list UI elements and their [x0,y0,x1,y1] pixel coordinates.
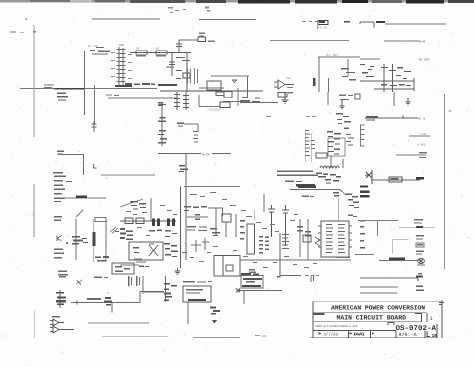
wire AC neutral bus [365,117,418,119]
wire H30 battery bus [358,221,435,228]
arrow marks right [110,227,119,233]
label 1N4007 [419,152,427,158]
edge connector marks far left battery area [360,220,365,249]
stray dash [449,111,452,112]
dashed net marker [266,115,316,118]
wire V40 [347,59,349,76]
svg-text:R1 10K: R1 10K [88,45,98,48]
wire vertical V34 [318,58,320,93]
wire elbow V43 [377,221,379,237]
op-amp U2 [274,77,294,89]
wire H30c stub [355,253,374,255]
svg-text:MAIN CIRCUIT BOARD: MAIN CIRCUIT BOARD [337,315,407,322]
junction drop [373,22,375,28]
diode D1 row [125,83,155,85]
wire V53 [34,311,36,338]
wire V18 [215,208,217,235]
relay K2 box tall [247,224,255,254]
relay K1b box [224,92,232,98]
wire H39 drive bus [71,302,140,304]
cluster right of diagonal [346,194,359,209]
wire jog [144,291,164,293]
node tick on H39 [76,301,78,305]
fuse F1 [318,21,328,30]
bracket node [94,164,97,168]
heatsink parts cluster [164,243,178,257]
svg-text:A+5V: A+5V [202,152,210,156]
wire H22 [101,174,155,176]
label texts row3 top left [59,276,108,278]
svg-text:1: 1 [430,316,433,322]
rotated text column pair [128,276,140,286]
wire stub [317,22,319,29]
ladder side labels [111,45,132,80]
wire V38 [338,198,340,221]
label row above transformer box [183,281,212,283]
wire drop from speaker bus [243,291,245,304]
wire H7 [318,56,360,58]
wire faint H42a [102,336,168,338]
wire V26 foot elbow [280,275,319,276]
resistor R22 with ground [210,228,220,236]
wire inverter output bus [371,179,420,181]
label small pair [249,269,255,273]
transistor Q11 [104,297,112,305]
wire right rail [444,94,446,269]
pin column pair cluster [259,236,269,253]
label stack fan [54,185,65,203]
wire H8 [360,58,380,60]
title block frame [310,300,442,338]
comparator block outline [328,138,345,156]
capacitor C9 bottom [95,256,109,261]
vertical marks x311 [311,276,315,282]
wire V elbow [197,124,199,132]
label BAT RED [416,235,424,240]
inductor L3 winding row [320,166,339,168]
svg-text:+12V: +12V [420,133,427,136]
wire AC line right [360,21,374,23]
label bottom right small [418,273,422,274]
wire V17 [198,95,200,107]
resistor network RN1 ladder [115,47,132,87]
capacitor C16 [282,205,289,246]
label ESD [54,216,62,221]
svg-text:J.RC2026: J.RC2026 [207,108,221,111]
IC U6 box small [316,153,327,158]
transformer T2 primary bars [152,219,175,227]
diagonal feeder [120,199,143,207]
wire vertical center [186,53,188,92]
capacitor C15 [268,205,275,237]
approval dark cell [314,313,325,315]
svg-text:870:-A: 870:-A [399,332,417,338]
svg-text:U2A: U2A [286,77,291,80]
ground GND4 [175,268,181,274]
wire relay line [396,154,426,156]
diagonal wire [76,210,83,217]
label dark on H30 [416,226,423,228]
inductor L1 [125,218,133,224]
ground GND2 [340,100,345,109]
label LINE [376,21,385,23]
letter K mark [57,236,62,242]
wire V5 [105,221,107,262]
transistor Q3 cluster [336,113,351,129]
wire AC input dashes [302,21,318,23]
transformer T1 top cluster [240,97,260,102]
wire vertical V2 [84,51,86,115]
svg-text:AMERICAN POWER CONVERSION: AMERICAN POWER CONVERSION [331,305,425,312]
wire H9b secondary [108,97,177,99]
extra parts near T2 [149,230,177,245]
wire H40 elbow [140,292,164,303]
svg-text:DWG: DWG [354,333,366,338]
wire V15 [165,276,167,302]
svg-text:AC N: AC N [418,118,425,121]
sheet bracket [427,331,430,337]
ground GND1 [282,92,289,103]
wire H24 long [184,186,240,188]
transformer T4 box with text [183,286,211,302]
wire bus with resistors R2 R3 [130,48,191,57]
svg-text:9000.XLT/12500/2000B.N.XLE: 9000.XLT/12500/2000B.N.XLE [315,324,357,328]
varistor RV1 [92,121,97,132]
transistor Q8 [179,165,188,172]
extra wire stubs central [191,238,209,252]
inductor L2 [136,218,144,224]
diode D4 box [278,93,287,98]
resistor row R20 [184,206,207,211]
wire V47 [393,92,395,106]
wire V3 lower with choke [93,219,96,262]
svg-text:F1 2A: F1 2A [318,27,327,30]
op-amp U9B [50,326,74,333]
node bar dark [158,84,177,86]
component above battery box [333,192,339,196]
node tick on AC bus [402,116,404,119]
driver cluster center bottom [164,283,177,301]
wire H34 MOV bus [379,260,420,262]
dwg tick [350,332,353,335]
svg-text:B+ BAT: B+ BAT [419,59,430,62]
wire A+5 feed [384,40,419,42]
label stack NEUT [53,172,72,182]
note text row long [277,171,318,177]
op-amp U9A [50,316,64,326]
wire H21 [58,154,84,156]
cell tick 2 [372,332,375,334]
svg-text:R2: R2 [136,48,140,51]
wire V39 [342,159,344,168]
edge pin stubs [361,129,364,140]
label pair lower [416,251,424,255]
driver cluster [323,174,341,184]
zener chain Z1 [158,102,167,146]
capacitor C7 [177,123,184,127]
node tick [344,21,350,22]
wire V37 [330,156,332,168]
label CR2 [288,92,293,94]
label dark 1N4148 row [296,184,315,186]
wire V54 [83,155,85,176]
label dark RED [416,177,424,180]
date tick [319,332,322,335]
label above H30 [414,219,423,224]
wire V30 [307,219,309,260]
label rows ACT [187,226,207,231]
label column PC RC [282,234,289,249]
connector bracket left edge [361,125,365,146]
ground GND3 [406,98,411,105]
wire H31 [393,240,409,253]
dark text row bottom [241,273,259,275]
label AC HOT [366,116,378,121]
wire V21 [235,214,237,237]
wire long to right edge [385,23,446,25]
rotated label columns [187,68,198,84]
lamp LP1 [417,258,425,265]
svg-text:R3: R3 [156,48,160,51]
transformer T3 box [214,256,240,276]
wire V35 [328,78,330,92]
label 10K box [216,92,224,95]
snubber network cluster [360,64,414,92]
wire upper k1 bus [199,87,224,89]
wire H28 [187,216,208,218]
bridge BR1 [389,177,402,182]
capacitor C12 [195,214,200,220]
extra label smudges central [126,192,317,268]
label bottom left pair [58,271,68,276]
wire horizontal main left bus [20,88,157,90]
wire mid horizontal [270,40,349,42]
wire A+5V bus [158,152,231,156]
label ACT above H39 [87,298,101,300]
wire H36 [360,276,423,282]
IC U8 big box with pins [318,221,352,257]
diagonal drop [340,190,346,195]
resistor R1 cluster with labels [88,45,110,55]
comparator cluster right [327,131,341,155]
wire V27 [254,210,256,220]
wire faint H42b [193,337,240,339]
corner bracket above title [439,302,444,305]
connector P1 edge [120,228,133,240]
capacitor C17 marks [297,226,311,237]
wire vertical V3 upper [94,85,96,125]
label stack RFD [54,249,64,259]
wire top bus right [199,19,256,21]
wire vertical V1 lower [33,184,35,237]
wire H38 [360,292,397,294]
wire drop from Q11 [111,303,113,313]
wire H26 [64,197,106,199]
wire H25 [290,189,340,191]
label 1N series [285,181,302,183]
wire V23 [263,194,265,212]
wire lower bus [160,90,263,92]
wire drop from H11 [247,76,249,97]
marks far right of comparator [346,134,354,146]
capacitor C5 dark tick [313,78,315,86]
small parts row [139,266,149,268]
wire V7 [150,198,152,221]
label PLT [44,85,54,89]
bridge rectifier BR2 box [129,242,163,260]
filter module FL1 box [112,263,134,274]
transistor Q5 with cross [365,170,372,184]
wire H37 [360,286,398,288]
scan edge dark band [0,0,474,3]
label dark MOV RED BLK [389,258,405,260]
wire V26 long [279,233,281,276]
svg-text:RLY DRV: RLY DRV [326,54,338,57]
wire V4 [75,219,77,260]
wire H35 [120,264,139,266]
wire H14 [199,106,220,108]
marks right edge x348 [348,215,357,218]
label BR text [302,196,314,198]
regulator U5 box [222,214,231,222]
edge marks at left of K2 [240,220,245,239]
transistor Q10 chain [56,290,66,308]
capacitor C1 cluster [166,44,182,76]
wire H27 with elbow [208,208,223,216]
squiggle mark [76,280,82,285]
node dot [66,242,68,244]
IC U3 [207,102,230,111]
label under bridge [134,259,146,263]
label stack left J2 pins [57,93,68,101]
relay K1 [179,33,215,54]
wire bus into row2 [240,102,278,104]
diode D11 zigzag [315,237,320,246]
wire H29 [120,220,176,222]
wire V13 long [180,187,182,269]
wire stub x238 [237,88,239,106]
wire V20 [225,222,227,237]
label 470 [416,286,424,292]
label dark row battery [298,186,316,189]
wire H33 long bottom bus [240,259,351,261]
size cell mark [388,322,394,324]
box U7 [303,235,311,242]
transistor Q1 cluster [176,57,190,79]
label boxed fuse [416,243,424,247]
wire H15 [223,101,250,103]
resistor ladder RN2 [174,92,189,110]
wire speaker bus [238,290,282,292]
ground GND6 [233,80,237,83]
diode D9 [316,173,326,178]
opto U4 cluster [130,201,146,210]
label WB [57,151,64,155]
label dark ESD RD [76,196,87,198]
wire top bus left [92,18,160,20]
plug P2 mark [236,289,240,293]
margin tick marks [10,19,36,33]
wire V12 long [185,154,187,261]
svg-text:1B: 1B [432,333,438,339]
mark near box [277,276,280,278]
wire V29 [299,219,301,257]
wire +12V line [409,135,430,137]
pencil smudge notes top center [168,7,210,14]
wire stub box K relay area [207,76,249,90]
battery labels dark [360,186,370,198]
label column small [193,131,198,143]
wire top right corner drop [359,22,361,24]
text column net names [305,130,315,156]
resistor R9 cluster [341,68,356,80]
wire V51 [142,276,144,294]
faint dashes left of title [255,335,266,336]
svg-text:A GND: A GND [417,144,426,147]
wire H17 [184,123,198,125]
wire faint H41 [88,322,149,324]
capacitor C22 blob pair [158,102,163,106]
rev cell bracket [415,313,427,322]
sense wire pair [306,131,311,162]
label above H33 [336,257,350,259]
transistor Q7 cluster [72,236,88,244]
wire V16 [187,302,189,324]
svg-text:A+5: A+5 [419,40,425,45]
bracket top H between V3 V5 [94,218,107,222]
speaker module LS1 box [241,272,263,288]
tick marks right of J2 [106,95,119,97]
wire vertical V1 faint [33,25,35,137]
capacitor C20 [210,307,220,315]
label T.B [339,94,360,100]
ground GND5 filled [212,320,217,324]
wire V36 [327,92,329,105]
